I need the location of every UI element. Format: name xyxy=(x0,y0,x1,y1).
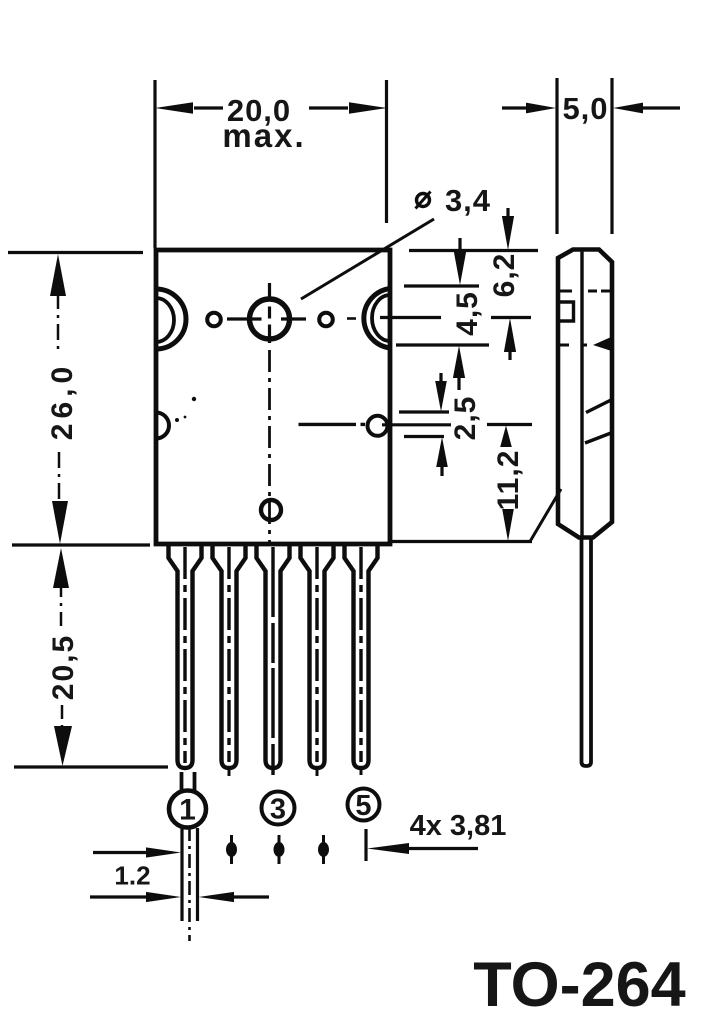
dash-dot line lower xyxy=(558,344,569,347)
small hole right xyxy=(319,313,333,327)
svg-text:TO-264: TO-264 xyxy=(473,950,685,1017)
svg-text:11,2: 11,2 xyxy=(492,450,525,511)
diagonal line 1 xyxy=(586,400,612,413)
20,0 extension lines xyxy=(153,80,156,248)
2,5 lines xyxy=(399,410,449,413)
pin 5 xyxy=(345,546,378,768)
side pin xyxy=(582,538,592,766)
svg-text:20,5: 20,5 xyxy=(47,634,80,700)
outline xyxy=(558,250,612,538)
pin 1 circle xyxy=(169,791,206,828)
right circle center line xyxy=(382,423,451,426)
pins xyxy=(169,546,378,768)
dash right of right small hole xyxy=(347,317,356,320)
pin 4 xyxy=(301,546,334,768)
20,0 dimension arrows xyxy=(155,102,193,113)
svg-text:4x 3,81: 4x 3,81 xyxy=(410,810,507,842)
vertical center line (dash-dot) xyxy=(268,350,271,543)
crisp digital labels xyxy=(114,810,685,1017)
right notch inner arc xyxy=(372,295,390,341)
4,5 lines xyxy=(404,284,479,287)
right notch outer arc xyxy=(364,289,390,349)
pin1 stub to circle xyxy=(180,772,184,792)
hole crosshair vertical xyxy=(268,283,271,301)
11,2 arrows (inside pointing out) xyxy=(500,426,512,448)
left notch outer arc xyxy=(156,289,186,349)
center mold line xyxy=(580,250,583,536)
arrow to pin1 upper xyxy=(93,851,147,854)
diameter symbol xyxy=(416,192,431,209)
svg-text:4,5: 4,5 xyxy=(451,291,484,336)
20,5 bottom line xyxy=(14,765,168,768)
20,5 arrows xyxy=(53,548,69,588)
pin 2 xyxy=(213,546,246,768)
pin 3 xyxy=(257,546,290,768)
svg-text:2,5: 2,5 xyxy=(449,396,482,441)
hole crosshair horizontal xyxy=(227,317,262,320)
small hole left xyxy=(207,313,221,327)
pin 1 projection lines xyxy=(180,828,183,921)
leader line for hole diameter xyxy=(301,219,434,299)
svg-text:max.: max. xyxy=(222,117,305,154)
5,0 arrows (outside) xyxy=(526,103,556,114)
svg-text:1.2: 1.2 xyxy=(114,861,150,891)
svg-text:3: 3 xyxy=(270,794,286,826)
svg-text:5,0: 5,0 xyxy=(562,91,608,126)
svg-text:6,2: 6,2 xyxy=(488,253,521,298)
11,2 lines xyxy=(487,423,532,426)
dirt specks xyxy=(175,397,196,422)
pin 5 circle xyxy=(348,789,380,821)
pin center lines xyxy=(185,547,361,776)
diagonal line 2 xyxy=(585,433,611,443)
5,0 extension lines xyxy=(555,78,558,234)
mounting hole (big, center) xyxy=(250,299,290,339)
svg-text:5: 5 xyxy=(355,790,371,822)
right circle center line dashes (left) xyxy=(299,423,357,426)
pin 3 circle xyxy=(262,792,295,825)
svg-text:1: 1 xyxy=(179,794,196,827)
right edge circle xyxy=(368,416,388,436)
1,2 dimension arrows xyxy=(90,895,147,898)
svg-text:26,0: 26,0 xyxy=(46,362,79,440)
svg-text:3,4: 3,4 xyxy=(445,183,491,218)
6,2 lines xyxy=(409,249,538,252)
wedge xyxy=(593,338,610,351)
markers pins 2-4 xyxy=(226,835,329,864)
4,5 arrows xyxy=(458,238,461,254)
package body outline xyxy=(156,250,390,544)
26,0 arrows xyxy=(50,254,66,296)
pin 1 xyxy=(169,546,202,768)
left lower notch arc xyxy=(156,413,169,439)
side notch rectangle xyxy=(558,302,574,321)
pin tip nubs xyxy=(228,768,231,776)
2,5 arrows xyxy=(439,373,442,383)
6,2 arrows xyxy=(506,208,509,217)
left notch inner arc xyxy=(156,298,174,342)
dash-dot line upper xyxy=(558,290,572,293)
26,0 extension lines xyxy=(8,251,143,254)
diagonal leader to side view xyxy=(530,489,561,542)
bottom small hole xyxy=(261,500,281,520)
3,81 tick and arrow xyxy=(364,829,367,861)
